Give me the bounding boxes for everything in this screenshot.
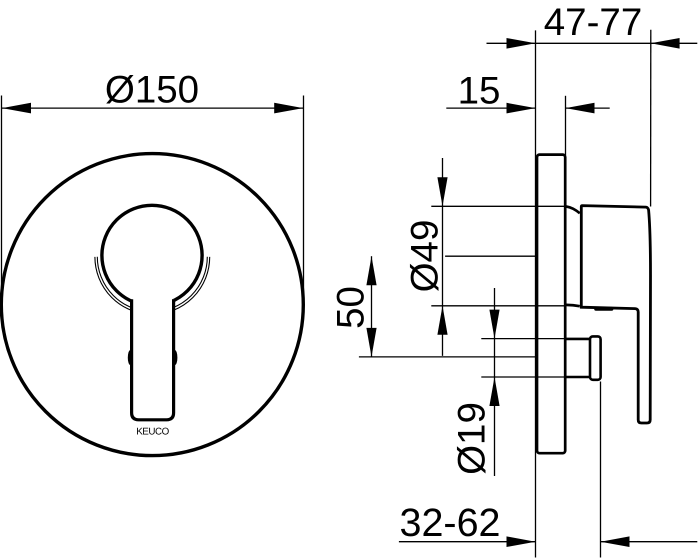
svg-text:47-77: 47-77 xyxy=(544,1,642,44)
svg-text:Ø49: Ø49 xyxy=(404,220,447,293)
svg-text:50: 50 xyxy=(330,286,373,329)
dimension Ø150: right extension line xyxy=(303,96,305,301)
dimension Ø49: bottom arrow xyxy=(437,306,447,335)
dimension 47-77: right arrow xyxy=(651,38,680,49)
svg-text:Ø19: Ø19 xyxy=(451,402,494,475)
dimension Ø150: left extension line xyxy=(1,96,3,301)
dimension 50: bottom arrow xyxy=(366,328,376,357)
side view: escutcheon plate xyxy=(537,155,565,454)
svg-text:Ø150: Ø150 xyxy=(105,68,199,111)
dimension Ø49: bottom extension line xyxy=(431,305,566,307)
dimension Ø150: left arrow xyxy=(2,103,31,114)
front view: stem side bump left xyxy=(128,350,133,365)
front view: trim arc inner xyxy=(97,257,207,312)
dimension Ø49: top arrow xyxy=(437,177,447,206)
dimension Ø150: right arrow xyxy=(274,103,303,114)
dimension Ø19: top extension line xyxy=(481,338,566,340)
dimension 15: right line with arrow xyxy=(566,107,610,109)
dimension 47-77: wall extension line xyxy=(535,30,537,557)
front view: lever stem white fill xyxy=(132,299,174,420)
side view: diverter knob cap xyxy=(590,336,601,379)
side view: handle knob and lever outline xyxy=(581,206,650,423)
side view: diverter cylinder top edge xyxy=(566,338,590,341)
dimension 47-77: right extension line xyxy=(650,30,652,207)
side view: neck top curve xyxy=(566,206,580,213)
front view: stem side bump right xyxy=(172,350,177,365)
dimension 32-62: right extension line xyxy=(600,382,602,558)
dimension Ø150: dimension line xyxy=(2,107,304,109)
dimension Ø19: bottom extension line xyxy=(481,376,566,378)
front view: escutcheon plate circle Ø150 xyxy=(1,154,303,456)
svg-text:KEUCO: KEUCO xyxy=(136,427,169,438)
dimension 32-62: right line with arrow xyxy=(601,541,698,543)
front view: trim arc left (thin double arc outer) xyxy=(95,257,210,314)
side view: handle axis line xyxy=(445,255,536,257)
dimension Ø49: dimension line xyxy=(442,158,444,356)
dimension 47-77: dimension line xyxy=(487,42,698,44)
dimension 50: dimension line xyxy=(371,256,373,357)
svg-text:32-62: 32-62 xyxy=(399,501,500,545)
side view: diverter axis line xyxy=(359,356,537,358)
dimension 47-77: left arrow xyxy=(507,38,536,49)
dimension 50: top arrow xyxy=(366,256,376,285)
front view: handle knob circle xyxy=(102,205,202,305)
dimension Ø19: top arrow xyxy=(489,310,499,339)
dimension Ø49: top extension line xyxy=(431,205,566,207)
dimension Ø19: dimension line xyxy=(494,288,496,476)
side view: diverter cylinder bottom edge xyxy=(566,376,590,379)
dimension 32-62: left line with arrow xyxy=(399,541,536,543)
dimension 15: left line with arrow xyxy=(446,107,535,109)
dimension 15: right extension line xyxy=(565,96,567,156)
svg-text:15: 15 xyxy=(458,69,501,112)
side view: indicator tab under knob xyxy=(594,307,613,311)
side view: neck bottom curve xyxy=(566,305,580,306)
front view: lever stem outline xyxy=(132,299,174,420)
dimension Ø19: bottom arrow xyxy=(489,377,499,406)
